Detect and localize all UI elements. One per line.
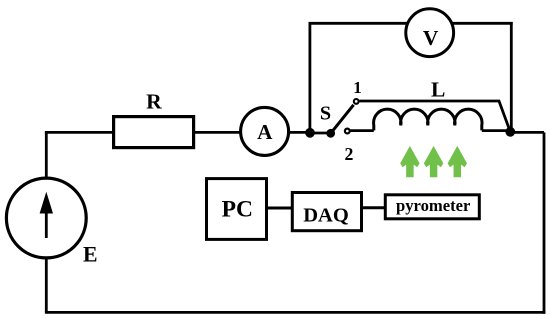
heating arrow 1 (green) bbox=[400, 146, 419, 177]
node: junction left (V-loop tap) bbox=[305, 128, 315, 138]
wire: contact 2 to inductor bbox=[351, 129, 374, 132]
box DAQ bbox=[292, 193, 361, 231]
inductor L coil bbox=[374, 109, 482, 130]
box pyrometer bbox=[385, 195, 479, 219]
svg-text:pyrometer: pyrometer bbox=[396, 196, 471, 215]
source E circle bbox=[6, 178, 86, 258]
svg-text:A: A bbox=[257, 120, 273, 144]
ammeter A1 circle bbox=[241, 107, 289, 155]
wire: outer right vertical bbox=[543, 132, 546, 313]
wire: voltmeter loop top horizontal bbox=[309, 22, 513, 25]
node: junction right bbox=[505, 127, 515, 137]
svg-text:E: E bbox=[83, 243, 98, 267]
wire: contact 1 bypass line to right node (with diagonal) bbox=[359, 101, 510, 132]
wire: outer bottom horizontal bbox=[45, 311, 546, 314]
wire: resistor to ammeter bbox=[194, 131, 243, 134]
wire: right node to outer right bbox=[510, 131, 544, 134]
wire: node to switch pivot bbox=[310, 132, 331, 135]
svg-text:R: R bbox=[146, 90, 162, 114]
wire: ammeter to node bbox=[287, 131, 310, 134]
wire: voltmeter loop left vertical bbox=[308, 22, 311, 133]
wire: E source top vertical bbox=[45, 132, 48, 178]
heating arrow 2 (green) bbox=[424, 146, 443, 177]
wire: inductor to right node bbox=[482, 129, 510, 132]
wire: voltmeter loop right vertical bbox=[510, 22, 513, 131]
node: switch pivot bbox=[326, 129, 335, 138]
svg-text:1: 1 bbox=[353, 78, 362, 97]
svg-text:2: 2 bbox=[345, 144, 354, 164]
switch S arm (pivot to contact 1) bbox=[331, 105, 354, 134]
svg-text:V: V bbox=[423, 26, 439, 50]
svg-text:PC: PC bbox=[222, 196, 253, 222]
resistor R bbox=[114, 117, 194, 148]
source E arrow head bbox=[40, 192, 53, 214]
box PC bbox=[207, 179, 267, 240]
switch contact 2 (open circle) bbox=[345, 129, 350, 134]
wire: E source bottom vertical bbox=[45, 258, 48, 313]
voltmeter V1 circle bbox=[406, 9, 454, 57]
svg-text:DAQ: DAQ bbox=[303, 204, 349, 226]
svg-text:S: S bbox=[320, 103, 331, 125]
switch contact 1 (open circle) bbox=[354, 99, 359, 104]
heating arrow 3 (green) bbox=[448, 146, 467, 177]
wire: main horizontal E to resistor bbox=[45, 131, 114, 134]
svg-text:L: L bbox=[431, 78, 445, 102]
source E arrow shaft bbox=[45, 211, 48, 238]
wire: PC to DAQ bbox=[267, 207, 293, 210]
wire: DAQ to pyrometer bbox=[362, 206, 386, 209]
